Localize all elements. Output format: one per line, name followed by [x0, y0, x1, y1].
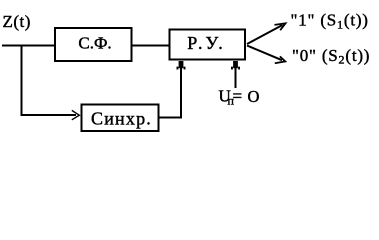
output label "0" (S2(t)) [292, 46, 370, 67]
svg-text:Z(t): Z(t) [3, 12, 31, 31]
block С.Ф. (matched filter) [55, 28, 132, 61]
wire: vertical branch drop at junction x=21.5 [21, 45, 23, 116]
arrow: Uп threshold input stem [235, 64, 237, 88]
arrowhead: Uп input into Р.У. (filled) [231, 61, 240, 70]
block Р.У. (decision unit) [170, 30, 246, 60]
output arrow "1" (upper diagonal) [247, 23, 286, 44]
svg-text:"1" (S1(t)): "1" (S1(t)) [291, 11, 369, 32]
arrowhead: Синхр. feedback into Р.У. (filled) [177, 61, 186, 70]
label С.Ф. [78, 34, 111, 53]
label Uп=0 [219, 87, 260, 108]
svg-text:=: = [233, 87, 243, 106]
svg-text:Р.У.: Р.У. [187, 33, 226, 53]
label Р.У. [187, 33, 226, 53]
svg-text:Синхр.: Синхр. [91, 109, 152, 129]
node Z(t) input label [3, 12, 31, 31]
label Синхр. [91, 109, 152, 129]
svg-text:O: O [248, 87, 260, 106]
wire: horizontal branch into Синхр. with open arrowhead [21, 110, 80, 119]
block Синхр. (synchronizer) [82, 105, 159, 132]
output label "1" (S1(t)) [291, 11, 369, 32]
wire: Синхр. output right then up into Р.У. bottom [160, 63, 182, 118]
wire: С.Ф. output to Р.У. input [132, 45, 169, 47]
wire: input horizontal from left edge to С.Ф. [2, 45, 55, 47]
output arrow "0" (lower diagonal) [247, 46, 285, 64]
svg-text:С.Ф.: С.Ф. [78, 34, 111, 53]
svg-text:"0" (S2(t)): "0" (S2(t)) [292, 46, 370, 67]
